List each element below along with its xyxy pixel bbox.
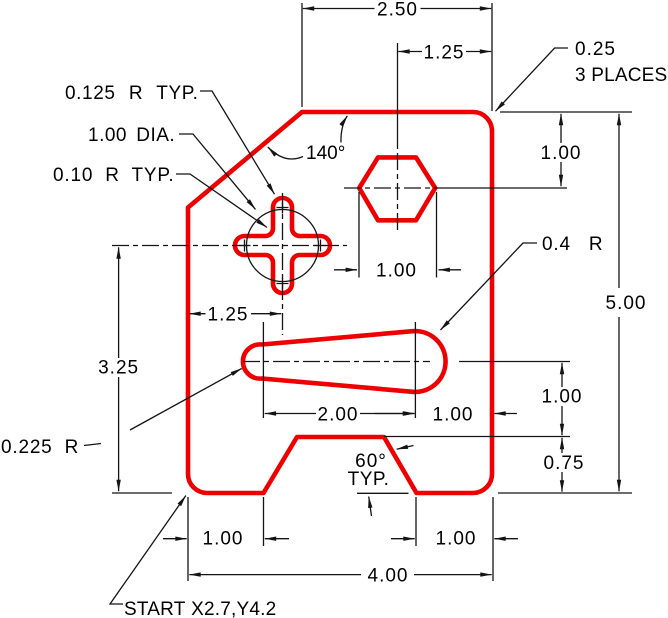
dim 1.25 cross xyxy=(189,313,205,315)
label 140 deg xyxy=(268,147,303,159)
centerline slot horizontal xyxy=(243,361,430,363)
dim 0.75 xyxy=(561,438,563,453)
ext line slot center right xyxy=(459,361,570,363)
cross tip mark right xyxy=(315,240,327,252)
svg-text:START X2.7,Y4.2: START X2.7,Y4.2 xyxy=(124,599,276,618)
dim 1.00 slot right xyxy=(375,413,415,415)
dim 1.00 right mid xyxy=(561,363,563,387)
svg-text:0.125 R TYP.: 0.125 R TYP. xyxy=(65,83,198,104)
label START xyxy=(110,496,186,605)
dim 5.00 xyxy=(618,114,620,288)
dim 1.00 bottom right xyxy=(391,538,415,540)
centerline cross vertical xyxy=(282,193,284,335)
cross tip mark bottom xyxy=(277,278,289,290)
cross tip mark left xyxy=(239,240,251,252)
svg-text:1.00: 1.00 xyxy=(376,261,417,282)
dim 1.00 hex xyxy=(334,269,357,271)
teardrop slot xyxy=(243,331,446,392)
svg-text:2.50: 2.50 xyxy=(377,0,418,21)
ext line slot right vertical xyxy=(414,322,416,418)
svg-text:1.00 DIA.: 1.00 DIA. xyxy=(88,125,175,146)
centerline cross horizontal xyxy=(112,245,347,247)
label 0.125 R TYP xyxy=(200,91,275,194)
svg-text:1.00: 1.00 xyxy=(436,529,477,550)
ext line right corner top xyxy=(491,3,493,111)
svg-text:0.4 R: 0.4 R xyxy=(542,234,603,255)
svg-text:140°: 140° xyxy=(306,143,345,164)
ext line top right horizontal xyxy=(500,111,632,113)
svg-text:3 PLACES: 3 PLACES xyxy=(575,65,667,86)
ext line hex right xyxy=(436,192,438,278)
cross slot xyxy=(235,198,330,293)
svg-text:1.00: 1.00 xyxy=(433,405,474,426)
ext line bottom v3 xyxy=(415,497,417,546)
centerline hex horizontal xyxy=(344,187,452,189)
svg-text:3.25: 3.25 xyxy=(98,358,139,379)
hexagon hole xyxy=(359,157,435,220)
svg-text:1.00: 1.00 xyxy=(542,387,583,408)
dim 1.00 top right xyxy=(560,114,562,143)
dim 1.00 bottom left xyxy=(163,538,187,540)
ext line bottom right horizontal xyxy=(498,492,632,494)
ext line chamfer top xyxy=(301,3,303,107)
centerline hex vertical xyxy=(397,43,399,149)
label 0.25 3 PLACES xyxy=(496,48,569,111)
dim 2.00 xyxy=(265,413,316,415)
dim 1.25 top xyxy=(398,51,422,53)
dim 2.50 xyxy=(303,8,375,10)
dim 4.00 xyxy=(189,574,361,576)
svg-text:1.25: 1.25 xyxy=(424,43,465,64)
ext line bottom v4 xyxy=(492,497,494,581)
ext line notch bottom xyxy=(357,492,409,494)
dim 3.25 xyxy=(118,247,120,358)
ext line slot left vertical xyxy=(262,322,264,418)
svg-text:2.00: 2.00 xyxy=(318,405,359,426)
label 0.10 R TYP xyxy=(176,174,267,227)
label 1.00 DIA xyxy=(179,134,256,209)
svg-text:0.75: 0.75 xyxy=(544,453,585,474)
cross tip mark top xyxy=(277,202,289,214)
ext line bottom v2 xyxy=(263,497,265,546)
svg-text:1.25: 1.25 xyxy=(208,305,249,326)
ext line notch top right xyxy=(384,436,570,438)
svg-text:0.25: 0.25 xyxy=(575,39,616,60)
svg-text:1.00: 1.00 xyxy=(203,529,244,550)
circle 1.00 DIA xyxy=(247,210,319,282)
ext line bottom left horizontal xyxy=(112,492,172,494)
svg-text:0.10 R TYP.: 0.10 R TYP. xyxy=(53,165,175,186)
svg-text:4.00: 4.00 xyxy=(368,566,409,587)
svg-text:TYP.: TYP. xyxy=(348,469,390,490)
svg-text:1.00: 1.00 xyxy=(541,143,582,164)
ext line bottom v1 xyxy=(187,497,189,581)
part outline xyxy=(188,112,492,493)
svg-text:0.225 R: 0.225 R xyxy=(1,437,79,458)
svg-text:5.00: 5.00 xyxy=(606,293,647,314)
label 60 TYP xyxy=(397,446,414,450)
ext line hex left xyxy=(358,192,360,278)
label 0.4 R xyxy=(441,243,538,330)
label 0.225 R xyxy=(84,444,101,446)
